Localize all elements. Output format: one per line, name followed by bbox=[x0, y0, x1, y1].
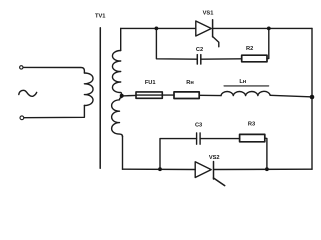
svg-text:VS2: VS2 bbox=[209, 155, 220, 161]
svg-text:R3: R3 bbox=[248, 121, 255, 127]
svg-text:R2: R2 bbox=[246, 46, 253, 52]
svg-text:TV1: TV1 bbox=[95, 14, 105, 20]
svg-text:Lн: Lн bbox=[239, 79, 246, 85]
svg-text:Rн: Rн bbox=[186, 80, 194, 86]
svg-text:FU1: FU1 bbox=[145, 80, 156, 86]
svg-text:C2: C2 bbox=[196, 47, 203, 53]
svg-text:C3: C3 bbox=[195, 123, 202, 129]
svg-text:VS1: VS1 bbox=[203, 11, 214, 17]
